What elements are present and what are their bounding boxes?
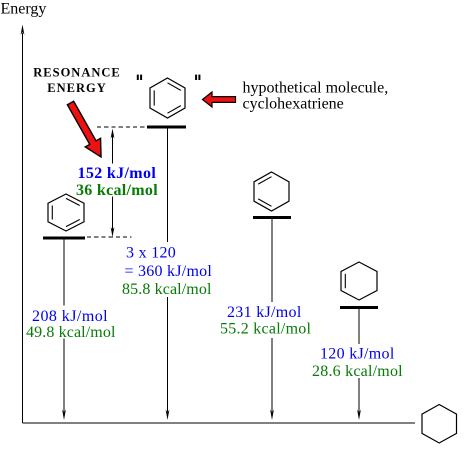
baseline xyxy=(23,422,416,424)
wire: cyclohexene level to baseline with down arrowhead xyxy=(357,309,361,420)
energy y-axis with up arrowhead xyxy=(21,25,25,424)
label: 85.8 kcal/mol xyxy=(122,281,212,298)
svg-text:49.8 kcal/mol: 49.8 kcal/mol xyxy=(26,324,116,341)
svg-text:3 x 120: 3 x 120 xyxy=(126,245,176,262)
level bar: hypothetical cyclohexatriene xyxy=(147,126,186,129)
label: 208 kJ/mol xyxy=(32,308,108,325)
svg-text:85.8 kcal/mol: 85.8 kcal/mol xyxy=(122,281,212,298)
level bar: cyclohexene xyxy=(340,306,378,309)
label: 28.6 kcal/mol xyxy=(312,363,403,380)
molecule: cyclohexane xyxy=(422,405,457,444)
label: 152 kJ/mol xyxy=(78,165,157,182)
wire: cyclohexadiene level to baseline with down arrowhead xyxy=(270,219,274,420)
molecule: 1,3-cyclohexadiene xyxy=(254,172,289,211)
label: 3 x 120 xyxy=(126,245,176,262)
label: 49.8 kcal/mol xyxy=(26,324,116,341)
resonance energy double-headed measurement arrow xyxy=(111,129,115,238)
white backing for 3x120 block xyxy=(120,242,213,297)
label: 36 kcal/mol xyxy=(76,182,158,199)
white backing for 152 block xyxy=(76,164,158,197)
svg-text:120 kJ/mol: 120 kJ/mol xyxy=(320,346,395,363)
white backing for 120 block xyxy=(310,344,404,378)
svg-text:Energy: Energy xyxy=(1,1,47,18)
energy axis label xyxy=(1,1,47,18)
svg-text:= 360 kJ/mol: = 360 kJ/mol xyxy=(125,263,213,280)
svg-text:ENERGY: ENERGY xyxy=(47,81,106,95)
molecule: hypothetical cyclohexatriene with quotes xyxy=(137,75,201,118)
svg-text:cyclohexatriene: cyclohexatriene xyxy=(243,96,344,113)
white backing for 208 block xyxy=(31,306,115,339)
label: RESONANCE ENERGY xyxy=(33,66,121,95)
wire: benzene level to baseline with down arrowhead xyxy=(62,239,66,420)
label: 231 kJ/mol xyxy=(227,304,302,321)
level bar: cyclohexadiene xyxy=(253,216,291,219)
wire: hypothetical level to baseline with down arrowhead xyxy=(166,128,170,420)
svg-text:hypothetical molecule,: hypothetical molecule, xyxy=(243,80,389,97)
svg-text:55.2 kcal/mol: 55.2 kcal/mol xyxy=(220,321,312,338)
svg-text:RESONANCE: RESONANCE xyxy=(33,66,121,80)
small red arrow pointing left at hypothetical molecule xyxy=(203,92,236,107)
svg-text:28.6 kcal/mol: 28.6 kcal/mol xyxy=(312,363,403,380)
level bar: benzene xyxy=(43,237,85,240)
label: 55.2 kcal/mol xyxy=(220,321,312,338)
label: 120 kJ/mol xyxy=(320,346,395,363)
label: hypothetical molecule, cyclohexatriene xyxy=(243,80,389,113)
svg-text:208 kJ/mol: 208 kJ/mol xyxy=(32,308,108,325)
dashed line at cyclohexatriene level xyxy=(97,126,147,128)
svg-text:152 kJ/mol: 152 kJ/mol xyxy=(78,165,157,182)
svg-text:231 kJ/mol: 231 kJ/mol xyxy=(227,304,302,321)
molecule: cyclohexene xyxy=(341,262,377,300)
svg-text:36 kcal/mol: 36 kcal/mol xyxy=(76,182,158,199)
big red arrow (resonance energy) xyxy=(63,99,109,162)
molecule: benzene xyxy=(48,194,84,231)
white backing for 231 block xyxy=(219,302,311,338)
dashed line at benzene level xyxy=(87,236,132,238)
label: = 360 kJ/mol xyxy=(125,263,213,280)
